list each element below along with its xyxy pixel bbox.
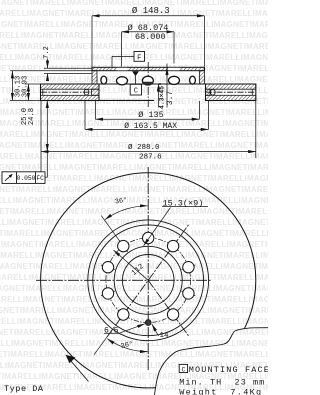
hat face bottom edge — [92, 83, 205, 85]
brake band right: outline — [206, 84, 256, 101]
svg-text:287.6: 287.6 — [139, 154, 162, 162]
svg-text:MAGNETIMARELLIMAGNETIMARELLIMA: MAGNETIMARELLIMAGNETIMARELLIMAGNETIMAREL… — [0, 163, 268, 172]
vent hole ellipse left band — [84, 89, 89, 95]
svg-text:MAGNETIMARELLIMAGNETIMARELLIMA: MAGNETIMARELLIMAGNETIMARELLIMAGNETIMAREL… — [0, 328, 268, 337]
radial ext 234 — [94, 329, 113, 355]
brake band left: outline — [41, 84, 100, 101]
hub circle 163.5 — [88, 220, 209, 341]
feature control frame box — [2, 172, 45, 184]
datum F box — [134, 52, 145, 62]
bolt hole radial ticks — [101, 231, 195, 320]
svg-text:MAGNETIMARELLIMAGNETIMARELLIMA: MAGNETIMARELLIMAGNETIMARELLIMAGNETIMAREL… — [0, 218, 268, 227]
svg-text:MOUNTING FACE: MOUNTING FACE — [189, 365, 268, 375]
hat flange top strip (cut, hatched) — [92, 67, 205, 70]
hat wall left (cut) — [92, 71, 97, 84]
dim 25 ext line — [25, 83, 41, 85]
112 radius arrow — [114, 250, 149, 280]
hole gap in strip left — [117, 68, 128, 71]
svg-text:MAGNETIMARELLIMAGNETIMARELLIMA: MAGNETIMARELLIMAGNETIMARELLIMAGNETIMAREL… — [0, 284, 268, 293]
svg-text:4.3×45°: 4.3×45° — [158, 82, 166, 109]
leader 15.3 — [144, 208, 171, 246]
brake band right: bottom plate hatch — [206, 95, 256, 100]
svg-text:MAGNETIMARELLIMAGNETIMARELLIMA: MAGNETIMARELLIMAGNETIMARELLIMAGNETIMAREL… — [0, 317, 268, 326]
vent centerline right (dash-dot) — [206, 91, 255, 93]
dim 68 ext lines — [121, 32, 123, 67]
svg-text:Ø 148.3: Ø 148.3 — [132, 6, 170, 16]
bolt hole ellipse e5 — [190, 76, 196, 84]
hole gap in strip right — [169, 68, 180, 71]
svg-text:6.6: 6.6 — [104, 326, 119, 335]
brake band right: vent end wall hatch — [206, 89, 211, 95]
vent centerline left (dash-dot) — [41, 91, 91, 93]
svg-text:Ø 163.5 MAX: Ø 163.5 MAX — [124, 122, 177, 131]
svg-text:C: C — [134, 88, 138, 96]
datum C stem — [135, 76, 137, 84]
brake band left: vent end wall hatch — [92, 89, 100, 95]
svg-text:3.7: 3.7 — [166, 91, 175, 106]
small screw hole 6.6 — [145, 320, 151, 326]
dim 25 line (band thickness) — [27, 84, 29, 101]
svg-text:36°: 36° — [114, 196, 128, 207]
dim 135 line — [96, 118, 200, 120]
svg-text:MAGNETIMARELLIMAGNETIMARELLIMA: MAGNETIMARELLIMAGNETIMARELLIMAGNETIMAREL… — [0, 339, 268, 348]
section direction arrow bottom-left — [68, 357, 89, 382]
svg-text:FC: FC — [36, 175, 44, 182]
svg-text:F: F — [137, 54, 141, 62]
svg-text:MAGNETIMARELLIMAGNETIMARELLIMA: MAGNETIMARELLIMAGNETIMARELLIMAGNETIMAREL… — [0, 306, 268, 315]
brake band right: top plate hatch — [206, 84, 256, 89]
hat wall right (cut) — [200, 71, 205, 84]
centerline horizontal — [36, 279, 212, 281]
note block: C MOUNTING FACE — [179, 364, 187, 372]
svg-text:68.000: 68.000 — [135, 32, 166, 42]
datum C box — [130, 84, 141, 95]
diagonal 306 — [148, 280, 189, 337]
runout symbol — [5, 174, 13, 181]
bolt circle 112 dash-dot — [106, 238, 191, 323]
dim 7.2 ext lines — [44, 67, 92, 69]
svg-text:C: C — [181, 366, 185, 373]
svg-text:Min. TH 23 mm: Min. TH 23 mm — [179, 378, 265, 388]
mounting face line across center — [99, 99, 154, 101]
svg-text:MAGNETIMARELLIMAGNETIMARELLIMA: MAGNETIMARELLIMAGNETIMARELLIMAGNETIMAREL… — [0, 350, 268, 359]
dim 68 line — [122, 31, 175, 33]
dim 163.5 line — [85, 128, 208, 130]
section centerline vertical — [147, 62, 149, 107]
vent slot end line right band — [251, 89, 253, 95]
disc outer circle — [41, 173, 256, 388]
dim 148.3 line — [92, 15, 205, 17]
svg-text:MAGNETIMARELLIMAGNETIMARELLIMA: MAGNETIMARELLIMAGNETIMARELLIMAGNETIMAREL… — [0, 42, 268, 51]
leader 6.6 — [104, 332, 119, 334]
radial ext 126 — [101, 216, 127, 252]
brake band left: top plate hatch — [41, 84, 100, 89]
brake band left: bottom plate hatch — [41, 95, 100, 100]
svg-text:MAGNETIMARELLIMAGNETIMARELLIMA: MAGNETIMARELLIMAGNETIMARELLIMAGNETIMAREL… — [0, 75, 268, 84]
dim to mounting plane + FCF leader — [46, 101, 48, 152]
datum F leader — [112, 55, 134, 57]
dim 7.2 arrows — [47, 59, 49, 69]
bolt holes x9 — [102, 232, 194, 320]
datum C triangle — [132, 71, 139, 76]
leader 14 — [152, 324, 159, 336]
vent slot end line left band — [42, 89, 44, 95]
svg-text:MAGNETIMARELLIMAGNETIMARELLIMA: MAGNETIMARELLIMAGNETIMARELLIMAGNETIMAREL… — [0, 240, 268, 249]
svg-text:MAGNETIMARELLIMAGNETIMARELLIMA: MAGNETIMARELLIMAGNETIMARELLIMAGNETIMAREL… — [0, 152, 268, 161]
centerline vertical — [147, 167, 149, 371]
svg-text:14: 14 — [160, 332, 170, 340]
center hole ellipse e3 — [142, 76, 153, 85]
diagonal 54-234 — [107, 224, 189, 337]
dim 30 ext lines — [10, 70, 92, 72]
dim 288 ext lines — [40, 101, 42, 172]
dim 30 line — [11, 71, 13, 101]
hub circle 148.3 — [93, 225, 204, 336]
svg-text:15.3(×9): 15.3(×9) — [163, 198, 204, 208]
36 deg arc top — [105, 206, 148, 220]
36 deg arc bottom — [107, 339, 147, 352]
hub circle 90 — [114, 246, 182, 314]
svg-text:Ø 288.0: Ø 288.0 — [128, 143, 160, 152]
svg-text:MAGNETIMARELLIMAGNETIMARELLIMA: MAGNETIMARELLIMAGNETIMARELLIMAGNETIMAREL… — [0, 196, 268, 205]
dim 148.3 ext lines — [91, 16, 93, 67]
svg-text:24.8: 24.8 — [28, 108, 36, 125]
break line — [155, 328, 269, 395]
chamfer dim lines 4.3 / 3.7 — [157, 84, 159, 108]
vent hole ellipse right band — [210, 89, 215, 95]
svg-text:MAGNETIMARELLIMAGNETIMARELLIMA: MAGNETIMARELLIMAGNETIMARELLIMAGNETIMAREL… — [0, 130, 268, 139]
svg-text:MAGNETIMARELLIMAGNETIMARELLIMA: MAGNETIMARELLIMAGNETIMARELLIMAGNETIMAREL… — [0, 108, 268, 117]
svg-text:Type DA: Type DA — [4, 384, 44, 394]
svg-text:MAGNETIMARELLIMAGNETIMARELLIMA: MAGNETIMARELLIMAGNETIMARELLIMAGNETIMAREL… — [0, 229, 268, 238]
dim 288 line — [41, 151, 256, 153]
svg-text:0.050: 0.050 — [17, 175, 36, 182]
bolt hole ellipse e2 — [117, 77, 128, 85]
svg-text:7.2: 7.2 — [43, 46, 51, 59]
svg-text:Weight 7.4Kg: Weight 7.4Kg — [179, 388, 262, 395]
bore circle 68 — [122, 254, 174, 306]
svg-text:Ø 135: Ø 135 — [138, 110, 164, 120]
bolt hole ellipse e4 — [169, 76, 180, 84]
svg-text:MAGNETIMARELLIMAGNETIMARELLIMA: MAGNETIMARELLIMAGNETIMARELLIMAGNETIMAREL… — [0, 185, 268, 194]
dim 163.5 ext lines — [84, 101, 86, 130]
svg-text:30.93: 30.93 — [22, 76, 30, 98]
dim 135 ext lines — [95, 101, 97, 119]
bolt hole ellipse e1 — [101, 76, 107, 84]
center hole dark bottom — [143, 82, 154, 85]
